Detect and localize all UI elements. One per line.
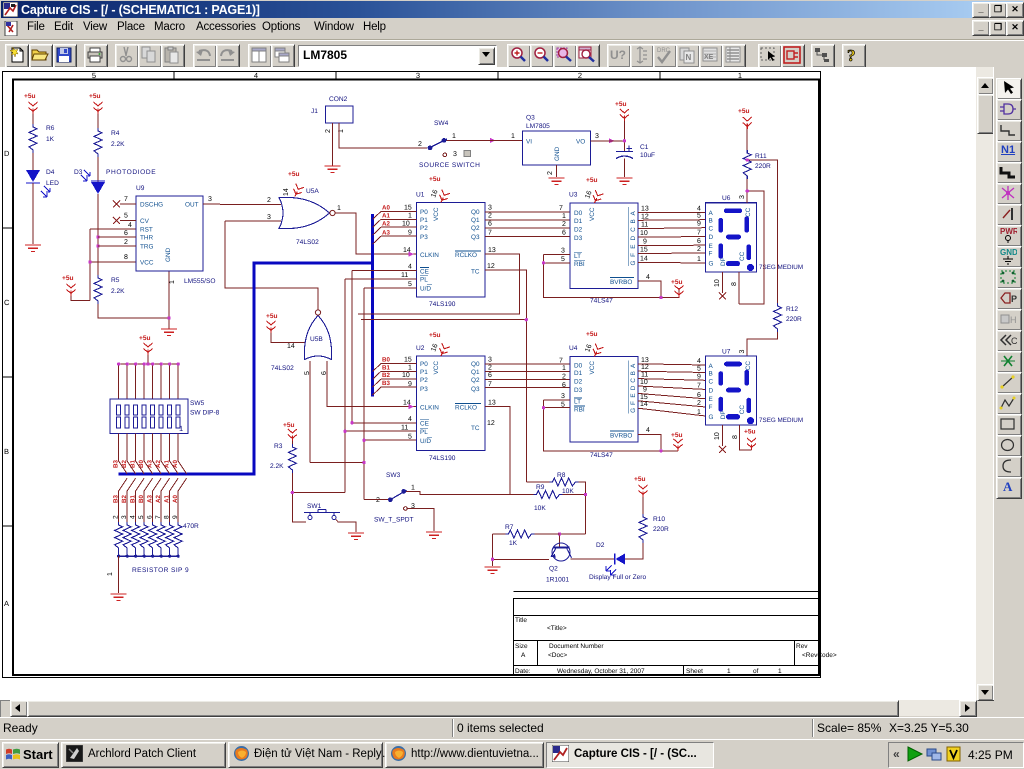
svg-text:CC: CC [739, 405, 746, 415]
wire (SW4 to Q3 VI) [447, 139, 523, 141]
svg-text:U2: U2 [416, 345, 425, 352]
svg-text:A: A [630, 211, 637, 216]
svg-text:F: F [630, 253, 637, 257]
wire (SW3 pin1 to R9) [406, 491, 534, 494]
svg-text:VCC: VCC [589, 207, 596, 221]
svg-text:F: F [709, 251, 713, 258]
svg-text:PWR: PWR [1000, 227, 1017, 236]
svg-text:OUT: OUT [185, 202, 199, 209]
palette: text [996, 477, 1022, 499]
ground [111, 594, 127, 600]
svg-text:14: 14 [287, 343, 295, 350]
resistor R3 [270, 443, 296, 473]
wire [32, 153, 34, 170]
svg-text:Display Full or Zero: Display Full or Zero [589, 574, 646, 581]
junction [362, 439, 365, 442]
junction [291, 491, 294, 494]
svg-text:N: N [686, 53, 692, 62]
svg-text:DSCHG: DSCHG [140, 202, 163, 209]
svg-text:7: 7 [488, 229, 492, 236]
svg-text:+5u: +5u [139, 335, 151, 342]
svg-text:7: 7 [155, 515, 162, 519]
svg-text:+5u: +5u [634, 476, 646, 483]
ground [549, 178, 565, 184]
svg-text:4: 4 [130, 515, 137, 519]
svg-text:1: 1 [511, 133, 515, 140]
palette: junction [996, 183, 1022, 205]
op-amp U5B 74LS02 NOR [266, 310, 332, 375]
svg-text:F: F [709, 404, 713, 411]
svg-text:Q1: Q1 [471, 369, 480, 376]
grid column ticks top [174, 72, 660, 80]
wire (U1 TC to U5B / R8) [361, 270, 526, 482]
wire (R11 to U6 pin3 and loop to pin8) [739, 179, 764, 304]
node B3 (lower labels) [113, 495, 180, 503]
svg-text:SW3: SW3 [386, 472, 401, 479]
svg-text:Q0: Q0 [471, 361, 480, 368]
palette: bus [996, 162, 1022, 184]
print [84, 44, 108, 68]
palette: line [996, 372, 1022, 394]
svg-text:A3: A3 [382, 229, 390, 236]
svg-text:3: 3 [488, 357, 492, 364]
junction [88, 260, 91, 263]
power +5V (R10 top) [634, 476, 648, 497]
bom list (disabled) [722, 44, 746, 68]
svg-text:3: 3 [739, 195, 746, 199]
svg-text:9: 9 [408, 229, 412, 236]
svg-text:1: 1 [727, 668, 731, 675]
svg-text:470R: 470R [183, 523, 199, 530]
junction [362, 461, 365, 464]
svg-text:1R1001: 1R1001 [546, 577, 569, 584]
svg-text:CE: CE [420, 268, 429, 275]
svg-text:LT: LT [574, 399, 581, 406]
resistor R4 [94, 128, 125, 157]
svg-text:14: 14 [640, 256, 648, 263]
svg-text:9: 9 [697, 373, 701, 380]
svg-text:R8: R8 [557, 472, 566, 479]
svg-text:U4: U4 [569, 345, 578, 352]
svg-text:220R: 220R [786, 316, 802, 323]
grid row letters [4, 149, 10, 608]
xref doc (disabled) [699, 44, 723, 68]
svg-text:15: 15 [404, 357, 412, 364]
svg-text:6: 6 [124, 230, 128, 237]
svg-text:3: 3 [488, 205, 492, 212]
select area [758, 44, 782, 68]
op-amp U9 LM555 [98, 185, 220, 285]
svg-text:13: 13 [641, 205, 649, 212]
palette: hierarchical pin (disabled) [996, 309, 1022, 331]
svg-text:+5u: +5u [89, 93, 101, 100]
svg-text:D2: D2 [596, 542, 605, 549]
svg-text:8: 8 [124, 254, 128, 261]
wire (R8/R9 right to Q2 base) [560, 482, 586, 548]
power +5V (R4 top) [89, 93, 103, 114]
svg-text:9: 9 [408, 381, 412, 388]
wire [642, 497, 644, 514]
svg-text:R9: R9 [536, 484, 545, 491]
svg-text:C1: C1 [640, 144, 649, 151]
junction [491, 558, 494, 561]
svg-text:B2: B2 [382, 372, 390, 379]
svg-text:2: 2 [113, 515, 120, 519]
svg-text:1: 1 [562, 365, 566, 372]
svg-text:P2: P2 [420, 377, 428, 384]
svg-text:LM7805: LM7805 [526, 123, 550, 130]
wire (U3 LT/RBI tie to +5V) [544, 255, 679, 298]
zoom area [553, 44, 577, 68]
svg-text:A: A [709, 363, 714, 370]
wire (Q2 collector to D2) [571, 558, 615, 560]
power +5V (U4 BVRBO) [671, 432, 683, 451]
svg-text:9: 9 [697, 221, 701, 228]
resistor R9 [534, 484, 563, 512]
wire (Q3 GND pin to ground) [556, 165, 558, 177]
svg-text:VO: VO [576, 139, 585, 146]
undo (disabled) [193, 44, 217, 68]
svg-text:U5A: U5A [306, 188, 319, 195]
ground [485, 567, 501, 573]
wire (U1 PL to U2 PL and R3 node) [345, 279, 417, 493]
decoder U3 74LS47 [559, 177, 638, 305]
svg-text:5: 5 [138, 515, 145, 519]
svg-text:4: 4 [128, 222, 132, 229]
pin 10 no-connect U7 [722, 425, 724, 446]
svg-text:3: 3 [121, 515, 128, 519]
svg-text:U6: U6 [722, 195, 731, 202]
svg-text:74LS02: 74LS02 [271, 365, 294, 372]
svg-text:P3: P3 [420, 234, 428, 241]
svg-text:74LS190: 74LS190 [429, 455, 456, 462]
wire [32, 114, 34, 124]
ground [161, 329, 177, 335]
LED D4 [26, 169, 59, 197]
capacitor C1 [616, 144, 655, 159]
wire (U1 RCLKO to U5B) [358, 254, 520, 314]
svg-text:13: 13 [641, 357, 649, 364]
wire [623, 159, 625, 178]
wire (bus entries lower) [119, 478, 187, 491]
wire (U4 A-G to U7) [638, 364, 706, 416]
svg-text:SW5: SW5 [190, 400, 205, 407]
svg-text:R6: R6 [46, 125, 55, 132]
palette: bus entry [996, 204, 1022, 226]
svg-text:1: 1 [778, 668, 782, 675]
palette: rectangle [996, 414, 1022, 436]
svg-text:5: 5 [408, 281, 412, 288]
svg-text:5: 5 [561, 256, 565, 263]
svg-text:3: 3 [561, 248, 565, 255]
counter U1 74LS190 [373, 176, 496, 308]
svg-text:G: G [630, 408, 637, 413]
svg-text:2: 2 [547, 171, 554, 175]
wire (to SIP resistors) [119, 491, 179, 522]
svg-text:U1: U1 [416, 192, 425, 199]
svg-text:5: 5 [697, 366, 701, 373]
svg-text:Q3: Q3 [471, 234, 480, 241]
svg-text:1: 1 [562, 213, 566, 220]
wire (U1 Q0-Q3 to U3 D0-D3) [485, 212, 570, 237]
wire [623, 121, 625, 151]
regulator Q3 LM7805 [511, 115, 599, 176]
svg-text:6: 6 [562, 382, 566, 389]
svg-text:D: D [709, 234, 714, 241]
svg-text:LT: LT [574, 253, 581, 260]
svg-text:Document Number: Document Number [549, 643, 604, 650]
svg-text:CON2: CON2 [329, 96, 348, 103]
svg-text:13: 13 [488, 400, 496, 407]
svg-text:5: 5 [408, 433, 412, 440]
svg-text:<Doc>: <Doc> [548, 652, 567, 659]
wire (U1 CE to U2 CE) [352, 271, 417, 423]
svg-text:1: 1 [411, 485, 415, 492]
svg-text:3: 3 [416, 71, 420, 80]
svg-text:220R: 220R [653, 526, 669, 533]
tray [888, 742, 1024, 768]
svg-text:+5u: +5u [266, 313, 278, 320]
counter U2 74LS190 [373, 332, 496, 462]
svg-text:B: B [630, 219, 637, 223]
zoom out [530, 44, 554, 68]
svg-text:D0: D0 [574, 362, 583, 369]
junction (rail dots) [117, 362, 180, 365]
palette: polyline [996, 393, 1022, 415]
svg-text:+5u: +5u [586, 177, 598, 184]
svg-text:D1: D1 [574, 370, 583, 377]
svg-text:6: 6 [147, 515, 154, 519]
svg-text:U5B: U5B [310, 336, 323, 343]
svg-text:2: 2 [488, 212, 492, 219]
redo (disabled) [216, 44, 240, 68]
wire (bus entries upper) [119, 461, 187, 474]
svg-text:RESISTOR SIP 9: RESISTOR SIP 9 [132, 567, 189, 574]
svg-text:Rev: Rev [796, 643, 808, 650]
svg-text:PHOTODIODE: PHOTODIODE [106, 169, 156, 176]
svg-text:2.2K: 2.2K [270, 463, 284, 470]
svg-text:+5u: +5u [671, 432, 683, 439]
svg-text:11: 11 [401, 424, 408, 431]
wire (photodiode to THR/TRG/R5) [97, 194, 99, 275]
svg-text:D3: D3 [74, 169, 83, 176]
sheet outer border [3, 72, 821, 678]
svg-text:VCC: VCC [433, 361, 440, 375]
svg-text:SW1: SW1 [307, 503, 322, 510]
svg-text:2: 2 [562, 221, 566, 228]
svg-text:G: G [709, 414, 714, 421]
grid column numbers [92, 71, 742, 80]
svg-text:U7: U7 [722, 348, 731, 355]
svg-text:CC: CC [745, 361, 752, 371]
svg-text:H: H [1010, 315, 1017, 325]
svg-text:G: G [709, 261, 714, 268]
svg-text:74LS02: 74LS02 [296, 239, 319, 246]
annotate U? (disabled) [607, 44, 631, 68]
wire [71, 229, 136, 301]
palette: hierarchical port [996, 288, 1022, 310]
new [5, 44, 29, 68]
svg-text:13: 13 [488, 247, 496, 254]
wire (SW1 right to ground) [336, 520, 356, 533]
decoder U4 74LS47 [559, 331, 638, 459]
svg-text:A1: A1 [382, 212, 390, 219]
svg-text:C: C [1011, 336, 1017, 346]
svg-text:1: 1 [697, 409, 701, 416]
svg-text:6: 6 [562, 230, 566, 237]
svg-text:GND: GND [165, 247, 172, 262]
svg-text:RCLKO: RCLKO [455, 252, 477, 259]
wire [97, 157, 99, 182]
svg-text:7: 7 [124, 196, 128, 203]
cut (disabled) [115, 44, 139, 68]
junction [659, 296, 662, 299]
junction [96, 235, 99, 238]
svg-text:GND: GND [554, 146, 561, 161]
svg-text:2: 2 [267, 197, 271, 204]
svg-text:D3: D3 [574, 235, 583, 242]
svg-text:Q2: Q2 [549, 566, 558, 573]
wire [291, 441, 293, 444]
svg-text:D3: D3 [574, 387, 583, 394]
netlist doc (disabled) [676, 44, 700, 68]
switch SW4 SOURCE SWITCH [418, 120, 480, 169]
part editor (red) [781, 44, 805, 68]
svg-text:11: 11 [641, 222, 648, 229]
zoom in [507, 44, 531, 68]
svg-text:8: 8 [732, 435, 739, 439]
hierarchy [811, 44, 835, 68]
svg-text:P0: P0 [420, 209, 428, 216]
svg-text:10K: 10K [562, 488, 574, 495]
junction [542, 406, 545, 409]
ibeam (disabled) [630, 44, 654, 68]
power +5V (R6 top) [24, 93, 38, 114]
svg-text:6: 6 [697, 238, 701, 245]
svg-text:2: 2 [488, 364, 492, 371]
pin 10 no-connect U6 [722, 272, 724, 293]
app icon [3, 2, 18, 17]
task: dientuvietnam url [385, 742, 544, 768]
save [53, 44, 77, 68]
sheet inner border [13, 80, 819, 676]
svg-text:D: D [709, 387, 714, 394]
DRC (disabled) [653, 44, 677, 68]
wire (TC line to R8) [526, 481, 549, 483]
svg-text:2: 2 [376, 497, 380, 504]
svg-text:9: 9 [172, 515, 179, 519]
svg-text:E: E [709, 243, 713, 250]
svg-text:15: 15 [640, 247, 648, 254]
svg-text:D: D [630, 236, 637, 241]
svg-text:P2: P2 [420, 225, 428, 232]
svg-text:Title: Title [515, 617, 527, 624]
junction [167, 316, 170, 319]
svg-text:16: 16 [430, 189, 439, 199]
junction [558, 532, 561, 535]
svg-text:7: 7 [697, 230, 701, 237]
resistor R5 [94, 275, 125, 304]
svg-text:G: G [630, 261, 637, 266]
svg-text:10uF: 10uF [640, 152, 655, 159]
svg-text:B3: B3 [113, 460, 120, 468]
svg-text:2: 2 [325, 129, 332, 133]
svg-text:XE: XE [704, 54, 714, 61]
junction [525, 318, 528, 321]
svg-text:16: 16 [584, 343, 593, 353]
svg-text:11: 11 [401, 272, 408, 279]
resistor R7 [505, 524, 535, 547]
switch SW1 pushbutton [304, 503, 340, 520]
wire [97, 114, 99, 128]
svg-text:BVRBO: BVRBO [610, 279, 632, 286]
connector J1 CON2 [311, 96, 353, 133]
svg-text:2: 2 [562, 373, 566, 380]
svg-text:CC: CC [739, 251, 746, 261]
svg-text:R5: R5 [111, 277, 120, 284]
wire (U7 pin8 to +5V) [739, 425, 751, 450]
combo box [298, 45, 497, 67]
svg-text:4: 4 [697, 205, 701, 212]
svg-text:4: 4 [646, 427, 650, 434]
svg-text:2: 2 [124, 239, 128, 246]
photodiode D3 [74, 169, 156, 194]
svg-text:+5u: +5u [586, 331, 598, 338]
svg-text:D2: D2 [574, 226, 583, 233]
svg-text:6: 6 [488, 220, 492, 227]
svg-text:Q0: Q0 [471, 209, 480, 216]
palette: place part [996, 99, 1022, 121]
svg-text:A: A [709, 210, 714, 217]
wire (tee to R12) [747, 160, 777, 303]
svg-text:R12: R12 [786, 306, 798, 313]
svg-text:GND: GND [1000, 248, 1017, 257]
svg-text:Size: Size [515, 643, 528, 650]
svg-text:<RevCode>: <RevCode> [802, 652, 837, 659]
power +5V (C1 node) [615, 101, 629, 121]
svg-text:1: 1 [337, 205, 341, 212]
wire (U3 A-G to U6) [638, 212, 706, 263]
svg-text:74LS47: 74LS47 [590, 452, 613, 459]
svg-text:15: 15 [404, 205, 412, 212]
svg-text:Q1: Q1 [471, 217, 480, 224]
svg-text:R7: R7 [505, 524, 514, 531]
svg-text:16: 16 [430, 343, 439, 353]
ground [325, 166, 341, 172]
wire (Q3 VO to C1/+5V node) [591, 140, 625, 142]
svg-text:SOURCE SWITCH: SOURCE SWITCH [419, 162, 480, 169]
task: Capture CIS (active) [546, 742, 714, 768]
grid row ticks left [3, 228, 14, 526]
svg-text:3: 3 [595, 133, 599, 140]
svg-text:Q2: Q2 [471, 377, 480, 384]
svg-text:of: of [753, 668, 759, 675]
svg-text:VCC: VCC [140, 260, 154, 267]
svg-text:A: A [4, 599, 9, 608]
junction [623, 139, 626, 142]
svg-text:+5u: +5u [283, 422, 295, 429]
svg-text:9: 9 [643, 239, 647, 246]
junction [659, 449, 662, 452]
svg-text:2: 2 [418, 141, 422, 148]
svg-text:7SEG MEDIUM: 7SEG MEDIUM [759, 417, 803, 424]
svg-text:C: C [709, 379, 714, 386]
svg-text:RBI: RBI [574, 407, 585, 414]
svg-text:PL: PL [420, 429, 428, 436]
wire (R7 ends) [493, 534, 560, 566]
svg-text:C: C [4, 298, 10, 307]
svg-text:10K: 10K [534, 505, 546, 512]
